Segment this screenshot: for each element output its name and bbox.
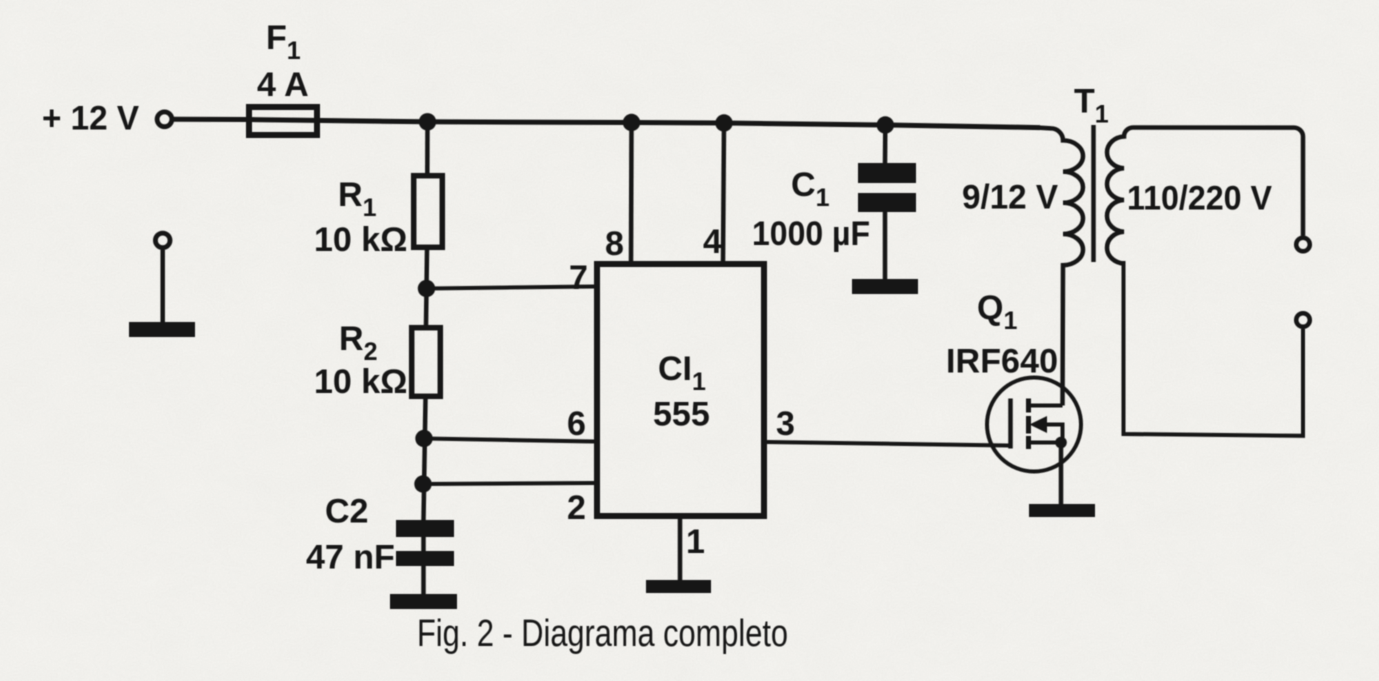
terminal: output upper xyxy=(1296,238,1310,252)
transistor Q1 channel segments xyxy=(1026,399,1031,450)
wire: junction to pin 2 xyxy=(423,483,594,484)
wire: secondary bottom lead to bottom rail and lower terminal xyxy=(1124,261,1304,436)
wire: C1 bottom plate to ground xyxy=(883,212,888,279)
node: rail / pin4 junction xyxy=(715,114,732,131)
fuse F1 xyxy=(249,107,317,135)
svg-text:6: 6 xyxy=(567,405,586,443)
wire: pin 8 to rail xyxy=(629,123,634,262)
wire: terminal to ground xyxy=(160,250,165,322)
transistor Q1 source link xyxy=(1029,441,1063,445)
ground (pin 1 of 555) xyxy=(646,580,711,593)
capacitor C1 plate top xyxy=(858,163,916,183)
svg-text:2: 2 xyxy=(567,489,586,527)
svg-text:110/220 V: 110/220 V xyxy=(1127,179,1272,217)
wire: rail to C1 top plate xyxy=(883,125,888,163)
svg-text:Fig. 2 - Diagrama completo: Fig. 2 - Diagrama completo xyxy=(417,613,788,655)
node: rail / pin8 junction xyxy=(623,114,640,131)
transistor Q1 body arrow line xyxy=(1044,425,1063,443)
svg-text:9/12 V: 9/12 V xyxy=(962,179,1058,217)
transistor Q1 circle xyxy=(987,378,1081,472)
svg-text:7: 7 xyxy=(569,259,588,297)
node: rail / R1 junction xyxy=(419,113,436,130)
svg-text:47 nF: 47 nF xyxy=(306,539,395,577)
transformer T1 primary winding and drain lead xyxy=(1038,128,1083,406)
node: source junction dot xyxy=(1055,437,1067,449)
svg-text:10 kΩ: 10 kΩ xyxy=(314,221,407,259)
terminal: chassis reference circle (left) xyxy=(155,233,170,248)
wire: pin 4 to rail xyxy=(723,123,724,261)
transformer T1 secondary winding xyxy=(1107,128,1303,264)
wire: R1 bottom to junction xyxy=(424,250,429,289)
svg-text:C2: C2 xyxy=(325,493,368,531)
svg-text:IRF640: IRF640 xyxy=(946,343,1058,381)
node: R1/R2/pin7 junction xyxy=(418,280,435,297)
svg-text:3: 3 xyxy=(776,405,795,443)
wire: rail to R1 top xyxy=(425,122,430,173)
transistor Q1 body arrowhead xyxy=(1030,416,1048,433)
transistor Q1 drain link xyxy=(1029,404,1063,408)
svg-text:555: 555 xyxy=(653,396,710,434)
ground (below C1) xyxy=(852,279,918,294)
wire: pin 3 to gate of Q1 xyxy=(767,442,1009,446)
node: rail / C1 junction xyxy=(877,116,894,133)
op-amp/timer IC CI1 555 body xyxy=(597,264,764,516)
wire: junction to pin 7 xyxy=(427,287,595,289)
terminal: output lower xyxy=(1296,313,1310,327)
ground (below C2) xyxy=(390,594,457,609)
transformer T1 core xyxy=(1091,125,1096,262)
svg-text:10 kΩ: 10 kΩ xyxy=(314,363,407,401)
svg-text:8: 8 xyxy=(605,225,624,263)
svg-text:4 A: 4 A xyxy=(257,66,309,104)
ground (Q1 source) xyxy=(1029,504,1095,517)
ground (left reference) xyxy=(129,322,195,337)
transistor Q1 gate bar xyxy=(1008,399,1013,449)
svg-text:1000 µF: 1000 µF xyxy=(752,215,870,253)
node: pin 2 junction xyxy=(414,475,431,492)
wire: junction to pin 6 xyxy=(424,439,594,442)
wire: junction to R2 top xyxy=(424,289,429,326)
wire: R2 bottom through pin6/pin2 nodes down to C2 xyxy=(424,399,426,520)
terminal: +12V input circle xyxy=(157,112,172,127)
node: pin 6 junction xyxy=(415,430,432,447)
capacitor C2 plate bottom xyxy=(396,551,454,566)
svg-text:+ 12 V: + 12 V xyxy=(42,99,139,137)
svg-text:1: 1 xyxy=(686,523,705,561)
svg-text:4: 4 xyxy=(703,223,722,261)
capacitor C2 plate top xyxy=(396,520,454,537)
wire: +12V input to fuse and top supply rail xyxy=(172,119,1040,127)
wire: pin 1 to ground xyxy=(678,519,683,580)
resistor R1 xyxy=(414,176,443,248)
capacitor C1 plate bottom xyxy=(858,193,916,212)
wire: C2 lead down to ground xyxy=(421,520,426,594)
resistor R2 xyxy=(412,328,441,397)
wire: source to ground xyxy=(1059,443,1064,505)
